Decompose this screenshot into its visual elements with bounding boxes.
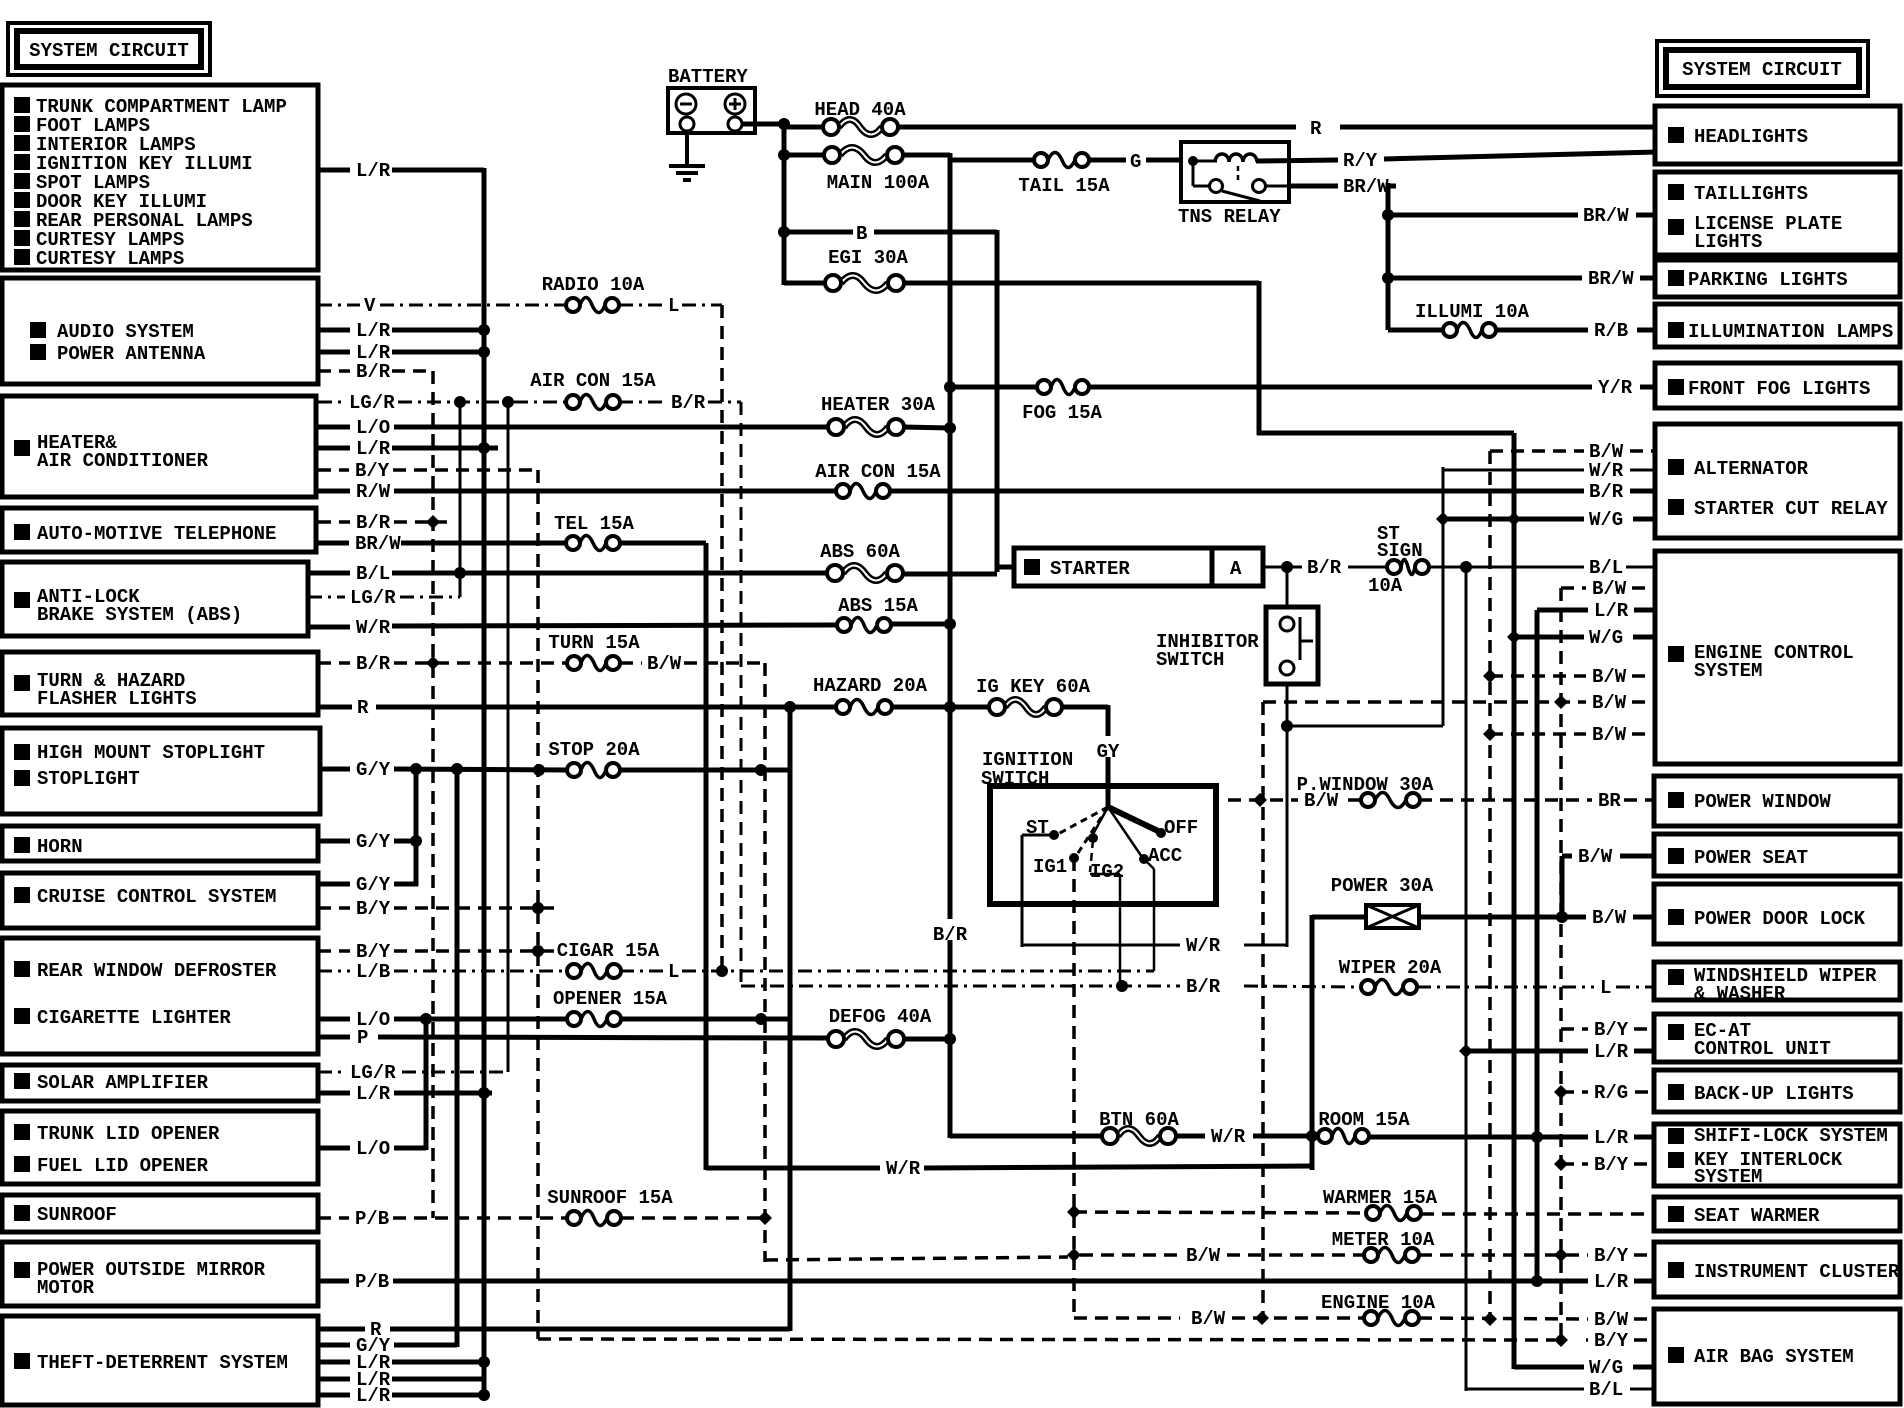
wire ST path bbox=[1022, 834, 1054, 837]
svg-text:L/B: L/B bbox=[356, 961, 390, 983]
svg-text:MAIN 100A: MAIN 100A bbox=[827, 172, 930, 194]
label B/Y shift bbox=[1594, 1154, 1629, 1176]
svg-text:FUEL LID OPENER: FUEL LID OPENER bbox=[37, 1155, 209, 1177]
svg-text:AIR CONDITIONER: AIR CONDITIONER bbox=[37, 450, 209, 472]
wire inhibitor-alternator link y726 bbox=[1287, 725, 1443, 728]
svg-text:SYSTEM CIRCUIT: SYSTEM CIRCUIT bbox=[29, 40, 189, 62]
svg-text:HEATER 30A: HEATER 30A bbox=[821, 394, 936, 416]
svg-text:ACC: ACC bbox=[1148, 845, 1182, 867]
bus dashed x1561 bbox=[1559, 588, 1563, 1342]
box ANTI-LOCK BRAKE SYSTEM (ABS) bbox=[2, 562, 308, 636]
label L wiper bbox=[1600, 977, 1611, 999]
wire ENGINE row dashed bbox=[1074, 1316, 1180, 1320]
junction abs15 out bbox=[944, 618, 956, 630]
label B/R wiper bbox=[1186, 976, 1221, 998]
relay TNS bbox=[1178, 142, 1289, 228]
label B/Y cruise bbox=[356, 898, 391, 920]
fuse EGI 30A bbox=[825, 247, 908, 291]
junction L/R instrument bbox=[1531, 1275, 1543, 1287]
label B/Y airbag bbox=[1594, 1330, 1629, 1352]
svg-text:W/G: W/G bbox=[1589, 627, 1623, 649]
label B/Y instrument bbox=[1594, 1245, 1629, 1267]
label LG/R abs bbox=[350, 587, 396, 609]
svg-text:B/W: B/W bbox=[1594, 1309, 1629, 1331]
label BR/W tns bbox=[1343, 176, 1389, 198]
svg-text:P/B: P/B bbox=[355, 1271, 389, 1293]
fuse ROOM 15A bbox=[1318, 1109, 1410, 1144]
svg-text:B/R: B/R bbox=[1589, 481, 1624, 503]
junction diamond W/G x1514 bbox=[1507, 512, 1521, 526]
svg-text:B: B bbox=[856, 223, 867, 245]
fuse TAIL 15A bbox=[1018, 153, 1110, 198]
svg-text:B/R: B/R bbox=[356, 653, 391, 675]
fuse HEATER 30A bbox=[821, 394, 936, 435]
wire L/R heater bbox=[318, 446, 350, 451]
wire B/L abs / ABS 60A row bbox=[308, 571, 350, 576]
junction R x950 bbox=[944, 701, 956, 713]
svg-text:SEAT WARMER: SEAT WARMER bbox=[1694, 1205, 1820, 1227]
svg-text:TURN 15A: TURN 15A bbox=[548, 632, 640, 654]
svg-text:TAIL 15A: TAIL 15A bbox=[1018, 175, 1110, 197]
svg-text:EGI 30A: EGI 30A bbox=[828, 247, 908, 269]
wire W/R abs / ABS 15A row bbox=[308, 625, 350, 630]
wire inhibitor drop bbox=[1286, 567, 1289, 607]
svg-text:W/R: W/R bbox=[886, 1158, 921, 1180]
svg-text:B/R: B/R bbox=[1186, 976, 1221, 998]
label R theft bbox=[370, 1319, 382, 1341]
svg-text:P: P bbox=[357, 1027, 368, 1049]
svg-text:AUDIO SYSTEM: AUDIO SYSTEM bbox=[57, 321, 194, 343]
svg-text:L: L bbox=[668, 961, 679, 983]
junction diamond B/Y shift bbox=[1554, 1157, 1568, 1171]
junction B/L x460 bbox=[454, 567, 466, 579]
svg-text:BR/W: BR/W bbox=[1588, 268, 1634, 290]
junction st sign out bbox=[1460, 561, 1472, 573]
svg-text:FLASHER LIGHTS: FLASHER LIGHTS bbox=[37, 688, 197, 710]
label W/G alternator bbox=[1589, 509, 1623, 531]
svg-text:BACK-UP LIGHTS: BACK-UP LIGHTS bbox=[1694, 1083, 1854, 1105]
junction gy1 x539 bbox=[533, 764, 545, 776]
label B/W pwindow bbox=[1304, 790, 1339, 812]
junction theft1 bbox=[478, 1356, 490, 1368]
svg-text:L/R: L/R bbox=[1594, 1271, 1629, 1293]
label L cigar bbox=[668, 961, 679, 983]
svg-text:LG/R: LG/R bbox=[349, 392, 395, 414]
junction diamond B/R tel bbox=[426, 515, 440, 529]
svg-text:AIR BAG SYSTEM: AIR BAG SYSTEM bbox=[1694, 1346, 1854, 1368]
svg-text:CIGARETTE LIGHTER: CIGARETTE LIGHTER bbox=[37, 1007, 231, 1029]
svg-text:B/Y: B/Y bbox=[1594, 1154, 1629, 1176]
wire W/G airbag bbox=[1514, 1365, 1584, 1370]
svg-text:R/B: R/B bbox=[1594, 320, 1628, 342]
svg-text:G/Y: G/Y bbox=[356, 831, 391, 853]
box SEAT WARMER bbox=[1654, 1197, 1900, 1231]
svg-text:IG KEY 60A: IG KEY 60A bbox=[976, 676, 1091, 698]
label L/B defroster bbox=[356, 961, 390, 983]
wire EGI fuse row to corner 1259 bbox=[784, 281, 825, 286]
junction diamond engine 1488 bbox=[1483, 1312, 1497, 1326]
label L/R audio2 bbox=[356, 342, 391, 364]
box BACK-UP LIGHTS bbox=[1654, 1070, 1900, 1112]
label B bbox=[856, 223, 867, 245]
svg-text:CRUISE CONTROL SYSTEM: CRUISE CONTROL SYSTEM bbox=[37, 886, 276, 908]
junction power door lock bbox=[1556, 911, 1568, 923]
label L/R heater bbox=[356, 438, 391, 460]
svg-text:P/B: P/B bbox=[355, 1208, 389, 1230]
label B/R telephone bbox=[356, 512, 391, 534]
box interior lamps group bbox=[2, 85, 318, 270]
bus thick x1514 bbox=[1512, 433, 1517, 1369]
label W/G engine bbox=[1589, 627, 1623, 649]
fuse HEAD 40A bbox=[814, 99, 906, 135]
wire IG1 drop dashed bbox=[1072, 858, 1076, 1320]
junction diamond B/Y instr bbox=[1554, 1248, 1568, 1262]
box CRUISE CONTROL SYSTEM bbox=[2, 873, 318, 928]
label L/R ecat bbox=[1594, 1041, 1629, 1063]
wire P/B sunroof / SUNROOF fuse row bbox=[318, 1216, 349, 1220]
fuse STOP 20A bbox=[548, 739, 640, 778]
label B/R starter bbox=[1307, 557, 1342, 579]
svg-text:CONTROL UNIT: CONTROL UNIT bbox=[1694, 1038, 1831, 1060]
label BR/W telephone bbox=[355, 533, 401, 555]
svg-text:LG/R: LG/R bbox=[350, 1062, 396, 1084]
svg-text:INSTRUMENT CLUSTER: INSTRUMENT CLUSTER bbox=[1694, 1261, 1900, 1283]
wire W/G engine bbox=[1514, 635, 1584, 640]
junction gy1 x457 bbox=[451, 763, 463, 775]
junction btn power bbox=[1306, 1130, 1318, 1142]
label V bbox=[364, 295, 376, 317]
wire B/R telephone dashed bbox=[318, 520, 350, 524]
bus dashed x741 bbox=[740, 402, 743, 988]
svg-text:B/Y: B/Y bbox=[355, 460, 390, 482]
svg-text:B/R: B/R bbox=[671, 392, 706, 414]
label B/R turn bbox=[356, 653, 391, 675]
svg-text:L/R: L/R bbox=[1594, 600, 1629, 622]
junction L x722 bbox=[716, 965, 728, 977]
junction battery bus bbox=[778, 118, 790, 130]
wire B/W engine dashed y702 bbox=[1263, 700, 1586, 704]
svg-text:BR/W: BR/W bbox=[1343, 176, 1389, 198]
wire L/R engine bbox=[1537, 608, 1588, 613]
label B/W alternator bbox=[1589, 441, 1624, 463]
label W/R btn bbox=[1211, 1126, 1246, 1148]
junction diamond B/Y airbag bbox=[1554, 1333, 1568, 1347]
fuse RADIO 10A bbox=[542, 274, 645, 313]
junction inhibitor w/r bbox=[1281, 720, 1293, 732]
label B/Y ecat bbox=[1594, 1019, 1629, 1041]
wire B/W engine dashed y588 bbox=[1561, 586, 1586, 590]
svg-text:BR/W: BR/W bbox=[1583, 205, 1629, 227]
box HIGH MOUNT STOPLIGHT / STOPLIGHT bbox=[2, 728, 320, 814]
svg-text:G: G bbox=[1130, 151, 1141, 173]
wire LG/R solar dash-dot bbox=[318, 1071, 345, 1074]
label B/W engine 676 bbox=[1592, 666, 1627, 688]
junction diamond meter ig1 bbox=[1067, 1248, 1081, 1262]
junction fog tap bbox=[944, 381, 956, 393]
svg-text:B/W: B/W bbox=[1186, 1245, 1221, 1267]
junction defog out bbox=[944, 1033, 956, 1045]
bus BR/W x1388 bbox=[1386, 183, 1391, 330]
svg-text:REAR WINDOW DEFROSTER: REAR WINDOW DEFROSTER bbox=[37, 960, 277, 982]
label R/B bbox=[1594, 320, 1628, 342]
fuse OPENER 15A bbox=[553, 988, 668, 1027]
label B/R audio bbox=[356, 361, 391, 383]
fuse P.WINDOW 30A bbox=[1297, 774, 1434, 808]
svg-text:POWER DOOR LOCK: POWER DOOR LOCK bbox=[1694, 908, 1866, 930]
wire G/Y theft bbox=[318, 1343, 350, 1348]
fuse ILLUMI 10A bbox=[1415, 301, 1530, 338]
box AUTO-MOTIVE TELEPHONE bbox=[2, 508, 316, 552]
svg-text:DEFOG 40A: DEFOG 40A bbox=[829, 1006, 932, 1028]
label G/Y theft bbox=[356, 1335, 391, 1357]
svg-text:AUTO-MOTIVE TELEPHONE: AUTO-MOTIVE TELEPHONE bbox=[37, 523, 276, 545]
bus right power x950 bbox=[948, 153, 953, 1138]
title box left SYSTEM CIRCUIT bbox=[8, 23, 210, 75]
box SHIFI-LOCK SYSTEM / KEY INTERLOCK SYSTEM bbox=[1654, 1124, 1900, 1188]
svg-text:W/R: W/R bbox=[356, 617, 391, 639]
svg-text:RADIO 10A: RADIO 10A bbox=[542, 274, 645, 296]
svg-text:TNS RELAY: TNS RELAY bbox=[1178, 206, 1281, 228]
wire POWER 30A row / B/W power door lock bbox=[1312, 915, 1366, 920]
svg-text:B/W: B/W bbox=[1592, 692, 1627, 714]
junction diamond warmer bbox=[1067, 1205, 1081, 1219]
label B/R aircon bbox=[671, 392, 706, 414]
svg-text:L/R: L/R bbox=[356, 438, 391, 460]
wire B/Y airbag long dashed row bbox=[538, 1339, 1555, 1340]
label LG/R heater bbox=[349, 392, 395, 414]
label L/R theft3 bbox=[356, 1385, 391, 1407]
wire battery positive to bus bbox=[742, 122, 786, 127]
svg-text:B/W: B/W bbox=[1592, 666, 1627, 688]
fuse ABS 60A bbox=[820, 541, 903, 581]
bus GY x1108 bbox=[1106, 705, 1111, 809]
svg-text:B/W: B/W bbox=[647, 653, 682, 675]
wire L/R theft 1 bbox=[318, 1360, 350, 1365]
junction diamond W/G engine bbox=[1507, 630, 1521, 644]
junction stop out bbox=[755, 764, 767, 776]
junction main tap bbox=[778, 149, 790, 161]
svg-text:FRONT FOG LIGHTS: FRONT FOG LIGHTS bbox=[1688, 378, 1870, 400]
svg-text:R/G: R/G bbox=[1594, 1082, 1628, 1104]
label B/L airbag bbox=[1589, 1379, 1623, 1401]
bus thin x1466 bbox=[1465, 567, 1468, 1391]
label BR/W taillights bbox=[1583, 205, 1629, 227]
svg-text:L/O: L/O bbox=[356, 1138, 390, 1160]
svg-text:STOPLIGHT: STOPLIGHT bbox=[37, 768, 140, 790]
svg-text:SWITCH: SWITCH bbox=[1156, 649, 1224, 671]
svg-text:PARKING LIGHTS: PARKING LIGHTS bbox=[1688, 269, 1848, 291]
box REAR WINDOW DEFROSTER / CIGARETTE LIGHTER bbox=[2, 938, 318, 1054]
box SOLAR AMPLIFIER bbox=[2, 1065, 318, 1101]
label W/R alternator bbox=[1589, 460, 1624, 482]
svg-text:L/R: L/R bbox=[1594, 1127, 1629, 1149]
label L/R theft1 bbox=[356, 1352, 391, 1374]
junction diamond B/R turn bbox=[426, 656, 440, 670]
label L/O trunk lid bbox=[356, 1138, 390, 1160]
junction L/R heater bbox=[478, 442, 490, 454]
wire W/R BTN row bbox=[950, 1134, 1103, 1139]
svg-text:LIGHTS: LIGHTS bbox=[1694, 231, 1762, 253]
svg-text:& WASHER: & WASHER bbox=[1694, 983, 1786, 1005]
junction B/Y cruise bbox=[532, 902, 544, 914]
svg-text:ENGINE 10A: ENGINE 10A bbox=[1321, 1292, 1436, 1314]
wire R theft bbox=[318, 1327, 365, 1332]
svg-text:SIGN: SIGN bbox=[1377, 540, 1423, 562]
wire HEAD fuse row / R to HEADLIGHTS bbox=[784, 125, 823, 130]
box ENGINE CONTROL SYSTEM bbox=[1655, 551, 1900, 764]
wire B row bbox=[784, 230, 853, 235]
junction heater out bbox=[944, 422, 956, 434]
svg-text:BATTERY: BATTERY bbox=[668, 66, 748, 88]
fuse ENGINE 10A bbox=[1321, 1292, 1436, 1326]
wire METER row dashed bbox=[765, 1257, 1068, 1260]
svg-text:L/R: L/R bbox=[1594, 1041, 1629, 1063]
svg-text:B/Y: B/Y bbox=[356, 941, 391, 963]
label G bbox=[1130, 151, 1141, 173]
wire B/Y shift dashed bbox=[1561, 1162, 1588, 1166]
fusible link POWER 30A bbox=[1331, 875, 1434, 928]
bus POWER x1312 bbox=[1310, 915, 1315, 1170]
wire B/L airbag bbox=[1466, 1388, 1584, 1391]
label P lighter bbox=[357, 1027, 368, 1049]
junction L/O x426 bbox=[420, 1013, 432, 1025]
junction LG/R x508 bbox=[502, 396, 514, 408]
box POWER OUTSIDE MIRROR MOTOR bbox=[2, 1242, 318, 1306]
label B/W meter bbox=[1186, 1245, 1221, 1267]
wire IG2 path bbox=[1090, 840, 1093, 872]
svg-text:B/R: B/R bbox=[1307, 557, 1342, 579]
box ILLUMINATION LAMPS bbox=[1655, 304, 1900, 347]
junction diamond engine 1262 bbox=[1255, 1311, 1269, 1325]
svg-text:L/R: L/R bbox=[356, 320, 391, 342]
fuse AIR CON 15A left bbox=[530, 370, 656, 410]
svg-text:B/L: B/L bbox=[1589, 557, 1623, 579]
ground bbox=[669, 131, 705, 180]
svg-text:POWER 30A: POWER 30A bbox=[1331, 875, 1434, 897]
wire V RADIO row bbox=[318, 304, 360, 307]
box AUDIO SYSTEM / POWER ANTENNA bbox=[2, 278, 318, 384]
svg-text:ABS 15A: ABS 15A bbox=[838, 595, 918, 617]
junction diamond B/W 702 bbox=[1554, 695, 1568, 709]
bus B x997 bbox=[995, 230, 1000, 572]
wire P lighter / DEFOG fuse row bbox=[318, 1035, 350, 1040]
label W/R ignition bbox=[1186, 935, 1221, 957]
svg-text:HEAD 40A: HEAD 40A bbox=[814, 99, 906, 121]
box POWER SEAT bbox=[1654, 834, 1900, 876]
wire ACC drop bbox=[1144, 859, 1154, 869]
fuse SUNROOF 15A bbox=[547, 1187, 673, 1226]
wire R/B ILLUMI row to ILLUMINATION LAMPS bbox=[1388, 328, 1443, 333]
wire B/W P.WINDOW row dashed bbox=[1228, 798, 1298, 802]
wire R flasher / HAZARD IG KEY row bbox=[318, 705, 352, 710]
svg-text:W/R: W/R bbox=[1211, 1126, 1246, 1148]
svg-text:POWER ANTENNA: POWER ANTENNA bbox=[57, 343, 206, 365]
junction L/R audio2 bbox=[478, 346, 490, 358]
wire B/Y ec-at dashed bbox=[1561, 1027, 1588, 1031]
switch INHIBITOR bbox=[1156, 607, 1318, 684]
label B/L abs bbox=[356, 563, 390, 585]
svg-text:ALTERNATOR: ALTERNATOR bbox=[1694, 458, 1809, 480]
wire starter output B/R to ST SIGN bbox=[1263, 566, 1302, 569]
svg-text:HAZARD 20A: HAZARD 20A bbox=[813, 675, 928, 697]
svg-text:GY: GY bbox=[1097, 741, 1120, 763]
svg-text:SUNROOF: SUNROOF bbox=[37, 1204, 117, 1226]
bus EGI riser x1259 bbox=[1257, 281, 1262, 435]
svg-text:BRAKE SYSTEM (ABS): BRAKE SYSTEM (ABS) bbox=[37, 604, 242, 626]
wire W/R alternator bbox=[1443, 469, 1584, 472]
wire W/G starter cut relay bbox=[1443, 517, 1584, 522]
svg-text:B/Y: B/Y bbox=[1594, 1019, 1629, 1041]
wire MAIN fuse row bbox=[784, 153, 824, 158]
svg-text:P.WINDOW 30A: P.WINDOW 30A bbox=[1297, 774, 1434, 796]
svg-text:WIPER 20A: WIPER 20A bbox=[1339, 957, 1442, 979]
svg-text:CURTESY LAMPS: CURTESY LAMPS bbox=[36, 248, 184, 270]
wire LG/R abs dash-dot bbox=[308, 596, 345, 599]
box HORN bbox=[2, 826, 318, 861]
label R headlight wire bbox=[1307, 113, 1324, 140]
svg-text:FOG 15A: FOG 15A bbox=[1022, 402, 1102, 424]
svg-text:SYSTEM CIRCUIT: SYSTEM CIRCUIT bbox=[1682, 59, 1842, 81]
bus dashed x765 bbox=[763, 663, 767, 1262]
wire R/G backup dashed bbox=[1561, 1090, 1588, 1094]
svg-text:SHIFI-LOCK SYSTEM: SHIFI-LOCK SYSTEM bbox=[1694, 1125, 1888, 1147]
box TRUNK LID OPENER / FUEL LID OPENER bbox=[2, 1111, 318, 1184]
svg-text:OPENER 15A: OPENER 15A bbox=[553, 988, 668, 1010]
svg-text:TEL 15A: TEL 15A bbox=[554, 513, 634, 535]
wire W/R lower row y1168 bbox=[706, 1166, 880, 1171]
label GY bbox=[1094, 736, 1123, 763]
label L/R shift bbox=[1594, 1127, 1629, 1149]
svg-text:W/R: W/R bbox=[1589, 460, 1624, 482]
svg-text:G/Y: G/Y bbox=[356, 874, 391, 896]
fuse ABS 15A bbox=[837, 595, 918, 633]
bus dashed x1263 bbox=[1261, 702, 1265, 1318]
wire B/W engine dashed y676 bbox=[1490, 674, 1586, 678]
svg-text:STOP 20A: STOP 20A bbox=[548, 739, 640, 761]
label B/W engine 588 bbox=[1592, 578, 1627, 600]
fuse FOG 15A bbox=[1022, 380, 1102, 425]
svg-text:TRUNK LID OPENER: TRUNK LID OPENER bbox=[37, 1123, 220, 1145]
svg-text:R/W: R/W bbox=[356, 481, 391, 503]
label G/Y cruise bbox=[356, 874, 391, 896]
box FRONT FOG LIGHTS bbox=[1655, 363, 1900, 408]
svg-text:ILLUMINATION LAMPS: ILLUMINATION LAMPS bbox=[1688, 321, 1893, 343]
svg-text:POWER WINDOW: POWER WINDOW bbox=[1694, 791, 1831, 813]
svg-text:WARMER 15A: WARMER 15A bbox=[1323, 1187, 1438, 1209]
junction B/Y defroster bbox=[532, 945, 544, 957]
wire B/R turn dashed / TURN fuse row bbox=[318, 661, 350, 665]
junction ig2 b/r bbox=[1116, 980, 1128, 992]
svg-text:L: L bbox=[1600, 977, 1611, 999]
svg-text:LG/R: LG/R bbox=[350, 587, 396, 609]
svg-text:BR: BR bbox=[1598, 790, 1621, 812]
svg-text:B/W: B/W bbox=[1191, 1308, 1226, 1330]
wire BR/W from TNS bbox=[1289, 184, 1338, 189]
label Y/R bbox=[1598, 377, 1633, 399]
label B/W engine fuse bbox=[1191, 1308, 1226, 1330]
fuse AIR CON 15A right bbox=[815, 461, 941, 499]
wire L/R solar bbox=[318, 1091, 350, 1096]
wire BR/W to TAILLIGHTS bbox=[1388, 213, 1578, 218]
wire L/R lamps bbox=[318, 168, 350, 173]
wire L/R theft 3 bbox=[318, 1393, 350, 1398]
label R/Y bbox=[1340, 145, 1380, 172]
svg-text:L/O: L/O bbox=[356, 417, 390, 439]
svg-text:B/W: B/W bbox=[1592, 578, 1627, 600]
svg-text:THEFT-DETERRENT SYSTEM: THEFT-DETERRENT SYSTEM bbox=[37, 1352, 288, 1374]
svg-text:G/Y: G/Y bbox=[356, 759, 391, 781]
svg-text:BR/W: BR/W bbox=[355, 533, 401, 555]
